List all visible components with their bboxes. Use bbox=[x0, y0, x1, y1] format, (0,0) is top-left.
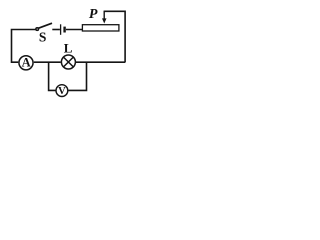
wire bbox=[68, 62, 86, 90]
lamp L bbox=[61, 40, 75, 69]
wire bbox=[12, 30, 36, 63]
wire bbox=[34, 61, 61, 63]
battery cell bbox=[61, 24, 66, 35]
svg-text:P: P bbox=[89, 7, 98, 22]
wire bbox=[52, 29, 60, 31]
wire bbox=[66, 29, 82, 31]
rheostat P bbox=[82, 7, 119, 31]
svg-text:A: A bbox=[22, 56, 31, 70]
svg-text:V: V bbox=[58, 86, 66, 97]
wire bbox=[104, 11, 125, 62]
wire bbox=[76, 61, 125, 63]
svg-text:S: S bbox=[39, 29, 47, 44]
switch S bbox=[36, 23, 52, 44]
voltmeter V bbox=[56, 85, 68, 97]
wire bbox=[49, 62, 56, 90]
svg-text:L: L bbox=[64, 40, 73, 55]
ammeter A bbox=[19, 56, 33, 70]
